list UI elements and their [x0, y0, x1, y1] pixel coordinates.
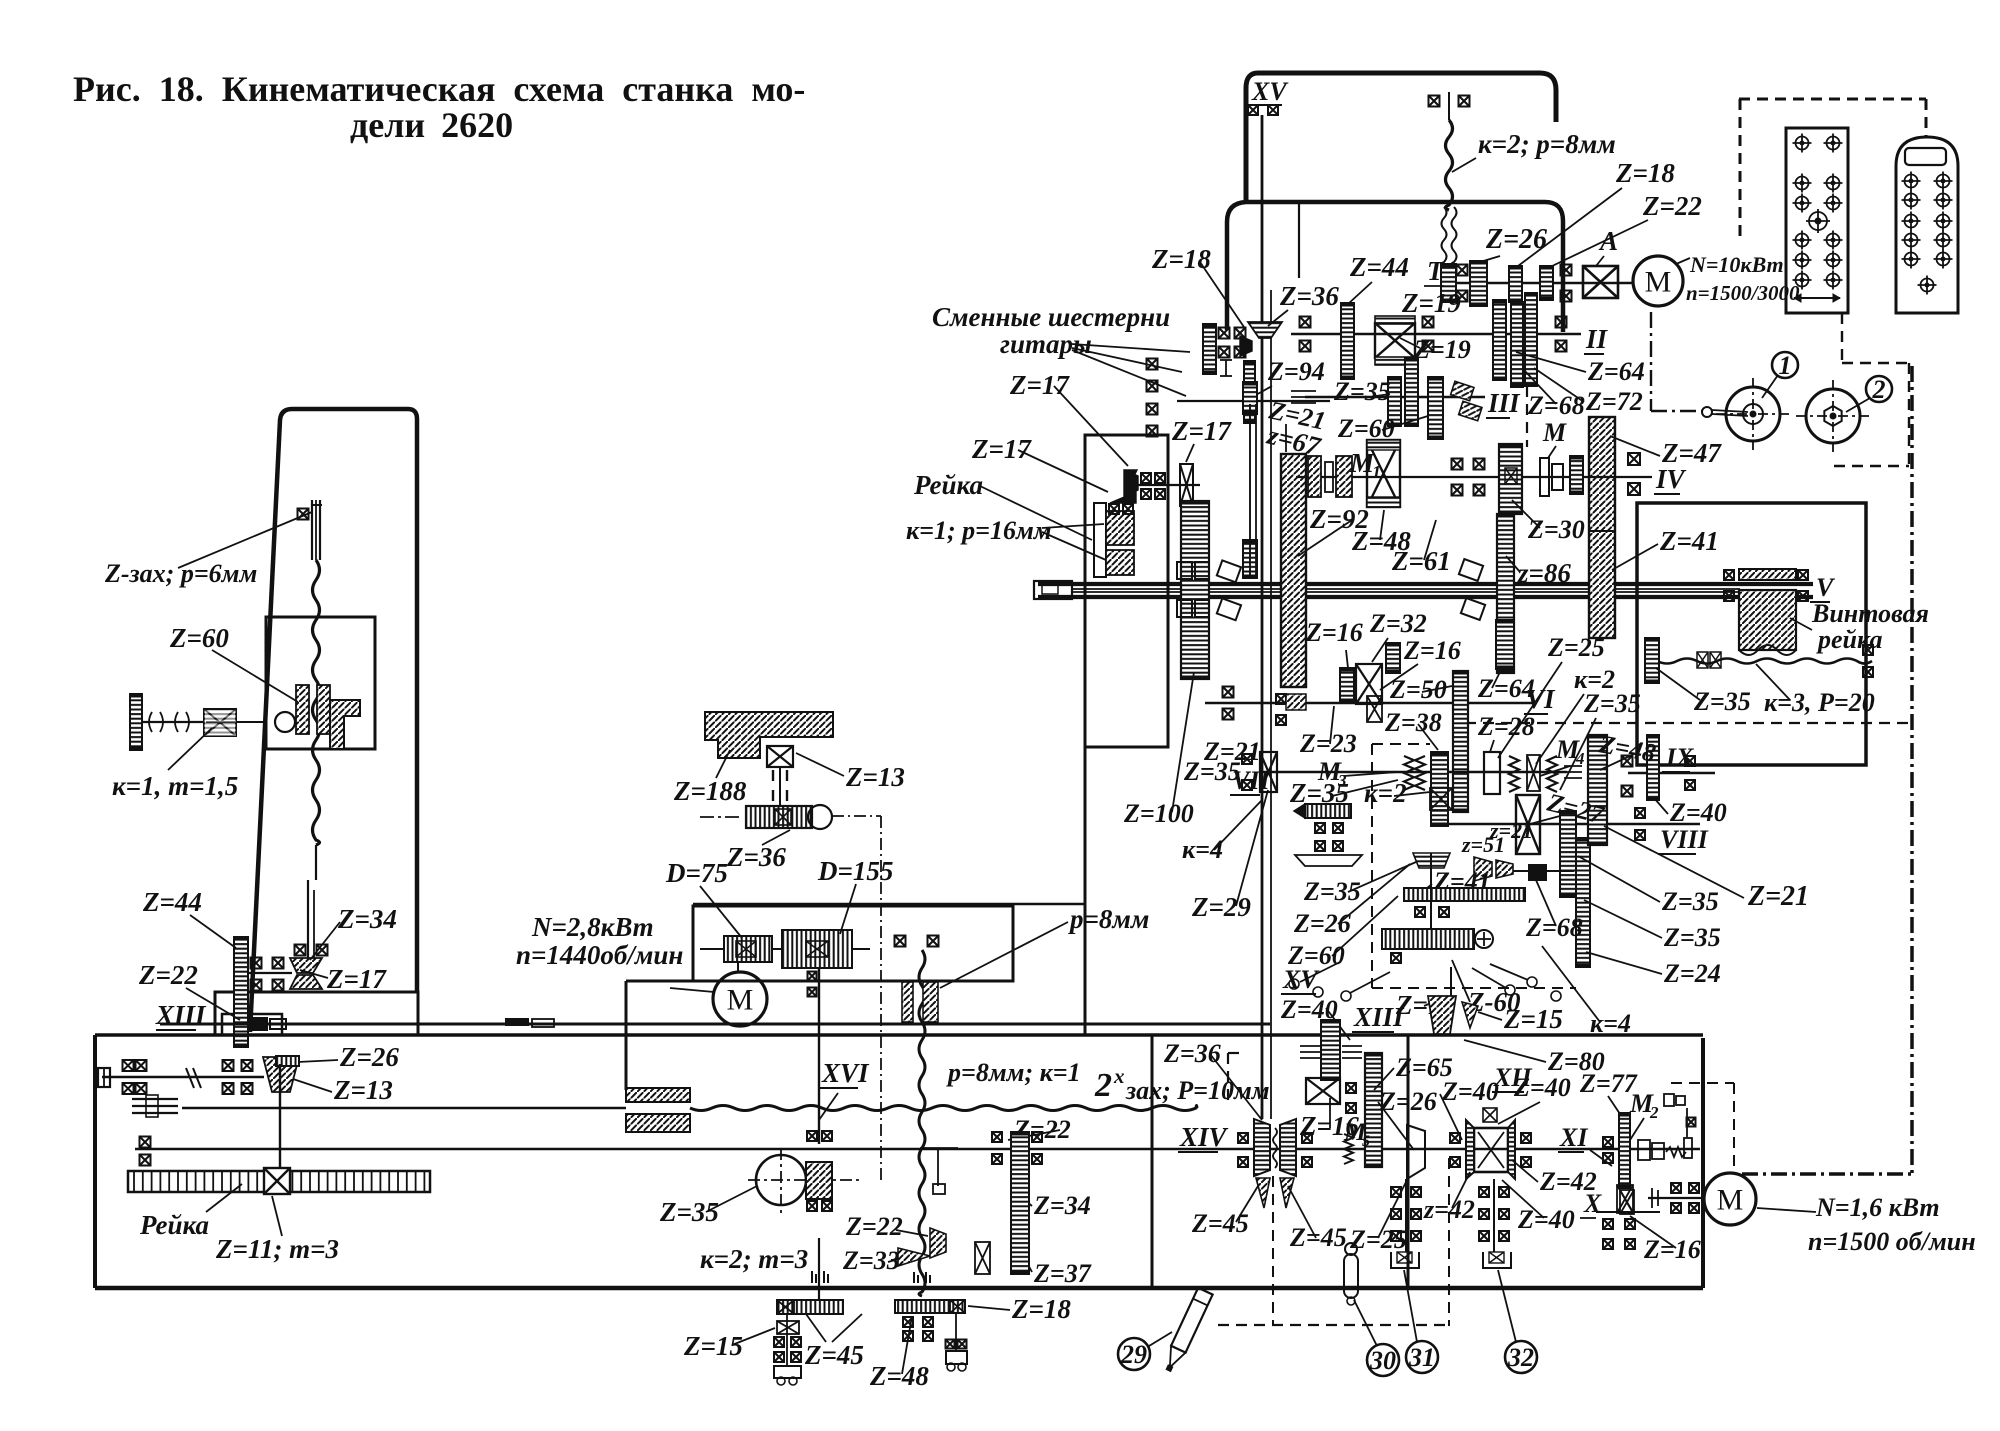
svg-text:Z=40: Z=40 [1441, 1077, 1499, 1106]
svg-text:III: III [1487, 388, 1521, 418]
svg-text:IX: IX [1665, 743, 1694, 772]
svg-text:Z=16: Z=16 [1305, 618, 1363, 647]
svg-text:Z=35: Z=35 [1693, 687, 1751, 716]
svg-text:к=2; p=8мм: к=2; p=8мм [1478, 129, 1616, 159]
svg-text:Z=77: Z=77 [1579, 1069, 1638, 1098]
svg-text:Z=36: Z=36 [726, 842, 786, 872]
svg-text:Z=23: Z=23 [1299, 729, 1357, 758]
svg-text:5: 5 [1362, 1133, 1370, 1150]
svg-text:Z=94: Z=94 [1267, 357, 1325, 386]
svg-text:Z-зах; p=6мм: Z-зах; p=6мм [104, 559, 257, 588]
svg-text:Z=13: Z=13 [845, 762, 905, 792]
svg-text:V: V [1816, 573, 1836, 602]
svg-text:XIV: XIV [1179, 1122, 1229, 1152]
svg-text:х: х [1113, 1064, 1125, 1088]
svg-text:Z=26: Z=26 [1379, 1087, 1437, 1116]
svg-text:Рис. 18. Кинематическая схема: Рис. 18. Кинематическая схема станка мо- [73, 69, 805, 109]
svg-text:Z=15: Z=15 [1503, 1004, 1563, 1034]
svg-text:Z=35: Z=35 [1661, 887, 1719, 916]
svg-text:Z=45: Z=45 [1191, 1209, 1249, 1238]
svg-text:Z=34: Z=34 [1033, 1191, 1091, 1220]
svg-text:Z=64: Z=64 [1587, 357, 1645, 386]
svg-text:XV: XV [1282, 965, 1320, 994]
svg-text:Z=19: Z=19 [1413, 335, 1471, 364]
svg-text:Z=22: Z=22 [138, 960, 198, 990]
svg-text:Z=100: Z=100 [1123, 799, 1194, 828]
svg-text:Z=188: Z=188 [673, 776, 747, 806]
svg-text:Рейка: Рейка [913, 470, 983, 500]
svg-text:D=155: D=155 [817, 856, 893, 886]
svg-text:Z=25: Z=25 [1547, 633, 1605, 662]
svg-text:2: 2 [1649, 1103, 1659, 1122]
svg-text:n=1440об/мин: n=1440об/мин [516, 940, 683, 970]
svg-text:T: T [1427, 256, 1445, 286]
svg-text:Z=40: Z=40 [1517, 1205, 1575, 1234]
svg-text:Z=26: Z=26 [339, 1042, 399, 1072]
svg-text:Z=40: Z=40 [1669, 798, 1727, 827]
svg-text:z=86: z=86 [1517, 558, 1571, 588]
svg-text:М: М [1645, 266, 1672, 299]
svg-text:XV: XV [1251, 77, 1289, 106]
svg-text:Z=45: Z=45 [1289, 1223, 1347, 1252]
svg-text:Z=45: Z=45 [804, 1340, 864, 1370]
svg-text:Z=17: Z=17 [1171, 416, 1232, 446]
svg-text:Z=41: Z=41 [1659, 526, 1719, 556]
svg-text:32: 32 [1507, 1343, 1534, 1372]
svg-text:рейка: рейка [1816, 625, 1883, 654]
svg-text:XIII: XIII [1353, 1002, 1405, 1032]
svg-text:к=2; m=3: к=2; m=3 [700, 1244, 808, 1274]
svg-text:Z=35: Z=35 [1289, 778, 1349, 808]
svg-text:к=1; p=16мм: к=1; p=16мм [906, 516, 1052, 545]
svg-text:1: 1 [1372, 462, 1381, 482]
svg-text:XI: XI [1559, 1123, 1588, 1152]
svg-text:Z=32: Z=32 [1369, 609, 1427, 638]
svg-text:Z=18: Z=18 [1151, 244, 1211, 274]
svg-text:Z=68: Z=68 [1527, 391, 1585, 420]
svg-text:зах; Р=10мм: зах; Р=10мм [1125, 1076, 1270, 1105]
svg-text:2: 2 [1094, 1067, 1112, 1104]
svg-text:2: 2 [1872, 375, 1886, 404]
svg-text:Z=40: Z=40 [1513, 1073, 1571, 1102]
svg-text:Z=60: Z=60 [169, 623, 229, 653]
svg-text:Z=11; m=3: Z=11; m=3 [215, 1234, 339, 1264]
svg-text:Z=17: Z=17 [1009, 370, 1070, 400]
svg-text:дели 2620: дели 2620 [350, 105, 513, 145]
svg-text:п=1500/3000: п=1500/3000 [1686, 281, 1800, 305]
svg-text:Z=35: Z=35 [659, 1197, 719, 1227]
svg-text:Z=16: Z=16 [1643, 1235, 1701, 1264]
svg-text:Z=15: Z=15 [683, 1331, 743, 1361]
svg-text:к=1, m=1,5: к=1, m=1,5 [112, 771, 238, 801]
svg-text:p=8мм; к=1: p=8мм; к=1 [946, 1058, 1081, 1087]
svg-text:Z=22: Z=22 [1642, 191, 1702, 221]
svg-text:Z=30: Z=30 [1527, 515, 1585, 544]
svg-text:31: 31 [1408, 1343, 1435, 1372]
svg-text:Z=61: Z=61 [1391, 546, 1451, 576]
svg-text:Z=36: Z=36 [1279, 281, 1339, 311]
svg-text:к=3, Р=20: к=3, Р=20 [1764, 688, 1875, 717]
svg-text:Z=17: Z=17 [971, 434, 1032, 464]
svg-text:Рейка: Рейка [139, 1210, 209, 1240]
svg-text:Z=68: Z=68 [1525, 913, 1583, 942]
svg-text:Z=19: Z=19 [1401, 288, 1461, 318]
svg-text:Винтовая: Винтовая [1811, 599, 1929, 628]
svg-text:Z=36: Z=36 [1163, 1039, 1221, 1068]
svg-text:Z=18: Z=18 [1615, 158, 1675, 188]
svg-text:Z=35: Z=35 [1303, 877, 1361, 906]
svg-text:Z=35: Z=35 [1183, 757, 1241, 786]
svg-text:Z=35: Z=35 [1333, 377, 1391, 406]
svg-text:Z=34: Z=34 [337, 904, 397, 934]
svg-text:Z=16: Z=16 [1403, 636, 1461, 665]
svg-text:Z=37: Z=37 [1033, 1259, 1092, 1288]
svg-text:М: М [1542, 418, 1567, 447]
svg-text:М: М [727, 984, 754, 1017]
svg-text:X: X [1583, 1189, 1602, 1218]
svg-text:Z=13: Z=13 [333, 1075, 393, 1105]
svg-text:Z=22: Z=22 [845, 1212, 903, 1241]
svg-text:к=4: к=4 [1182, 835, 1223, 864]
svg-text:к=4: к=4 [1590, 1009, 1631, 1038]
svg-text:Z=48: Z=48 [869, 1361, 929, 1391]
svg-text:N=1,6 кВт: N=1,6 кВт [1815, 1193, 1940, 1222]
svg-text:к=2: к=2 [1364, 778, 1407, 808]
svg-text:N=10кВт: N=10кВт [1689, 252, 1784, 277]
svg-text:Z=24: Z=24 [1663, 959, 1721, 988]
svg-text:Z=35: Z=35 [1583, 689, 1641, 718]
svg-text:Z=29: Z=29 [1191, 892, 1251, 922]
svg-text:Z=44: Z=44 [1349, 252, 1409, 282]
svg-text:Z=38: Z=38 [1384, 708, 1442, 737]
svg-text:30: 30 [1369, 1346, 1396, 1375]
svg-text:4: 4 [1575, 749, 1585, 768]
svg-text:XVI: XVI [821, 1058, 870, 1088]
svg-text:N=2,8кВт: N=2,8кВт [531, 912, 654, 942]
svg-text:Z=72: Z=72 [1585, 387, 1643, 416]
svg-text:п=1500 об/мин: п=1500 об/мин [1808, 1227, 1976, 1256]
svg-text:1: 1 [1779, 351, 1792, 380]
svg-text:IV: IV [1655, 464, 1687, 494]
svg-text:D=75: D=75 [665, 858, 728, 888]
svg-text:Z=17: Z=17 [326, 964, 387, 994]
svg-text:A: A [1598, 226, 1618, 256]
svg-text:Сменные шестерни: Сменные шестерни [932, 302, 1170, 332]
svg-text:p=8мм: p=8мм [1068, 904, 1149, 934]
svg-text:М: М [1717, 1184, 1744, 1217]
svg-text:29: 29 [1120, 1340, 1147, 1369]
svg-text:VIII: VIII [1660, 825, 1709, 854]
svg-text:Z=35: Z=35 [1663, 923, 1721, 952]
svg-text:z=51: z=51 [1461, 832, 1505, 857]
svg-text:Z=21: Z=21 [1747, 881, 1809, 912]
svg-text:Z=44: Z=44 [142, 887, 202, 917]
svg-text:Z=18: Z=18 [1011, 1294, 1071, 1324]
svg-text:II: II [1585, 324, 1609, 354]
svg-text:Z=26: Z=26 [1293, 909, 1351, 938]
